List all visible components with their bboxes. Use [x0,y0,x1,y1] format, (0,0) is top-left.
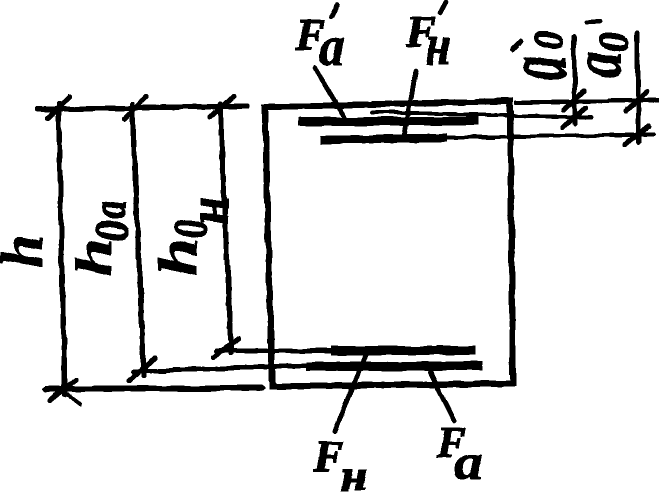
rebar F'н (second top bar) [320,138,447,141]
top edge extension line (right) [516,100,659,103]
arrow slash h0a bottom [129,358,155,381]
dimension line a0' second (vertical) [637,33,639,143]
svg-text:0: 0 [591,32,638,52]
subscript 0 of h0a [86,220,138,241]
arrow slash a0' first top [564,91,584,110]
arrow slash h0н top [210,96,234,117]
label h [0,235,55,268]
prime of a0' first [512,41,521,49]
subscript н of Fн [341,451,366,493]
dimension line a0' first (vertical) [574,37,575,124]
dimension tick line h0a (left extension of Fa bar) [133,366,306,372]
svg-text:а: а [85,201,137,219]
prime of F'a [331,5,337,16]
svg-text:F: F [313,432,343,481]
subscript 0 of a0' second [591,32,638,52]
svg-text:0: 0 [525,31,573,50]
concrete section outline [265,101,513,386]
extension line from F'a bar to a0' dimension [372,112,592,118]
subscript 0 of h0н [165,219,217,239]
dimension tick line h0н (left extension of Fн bar) [216,348,331,353]
arrow slash a0' second top [626,92,647,111]
svg-text:h: h [66,238,123,277]
rebar F'a (top bar) [298,121,479,122]
dimension line h0a (vertical) [132,104,144,376]
leader line F'н [404,71,416,137]
subscript н of h0н [176,197,241,225]
svg-text:а: а [454,434,483,490]
subscript a of Fa [454,434,483,490]
subscript a of h0a [85,201,137,219]
label a0' first [488,56,585,80]
label h0a [66,238,123,277]
subscript 0 of a0' first [525,31,573,50]
arrow slash h top [48,97,69,118]
prime of a0' second [587,21,600,22]
svg-text:н: н [341,451,366,493]
subscript a of F'a [319,15,345,77]
svg-text:н: н [176,197,241,225]
svg-text:н: н [426,14,451,76]
rebar Fн (upper bottom bar) [331,346,476,355]
label h0н [148,238,209,277]
arrow slash a0' first bottom [563,108,586,127]
dimension tick line top (common for h, h0a, h0н) [38,106,248,110]
arrow slash h bottom [50,380,76,401]
rebar Fa (lower bottom bar) [306,362,483,372]
prime of F'н [440,2,446,13]
svg-text:0: 0 [86,220,138,241]
arrow slash h0a top [124,97,146,119]
dimension line h0н (vertical) [220,104,231,353]
svg-text:h: h [0,235,55,268]
leader line Fн [335,355,366,431]
extension line from F'н bar to a0' dimension [447,135,654,138]
svg-text:а: а [319,15,345,77]
label a0' second [560,52,637,78]
svg-text:а: а [560,52,637,78]
dimension tick line h bottom [46,388,262,390]
svg-text:h: h [148,238,209,277]
arrow slash a0' second bottom [625,126,649,145]
subscript н of F'н [426,14,451,76]
dimension line h (vertical) [58,104,65,395]
leader line F'a [315,68,345,118]
leader line Fa [430,372,454,421]
arrow slash h bottom foot [66,393,80,404]
arrow slash h0н bottom [213,338,238,357]
